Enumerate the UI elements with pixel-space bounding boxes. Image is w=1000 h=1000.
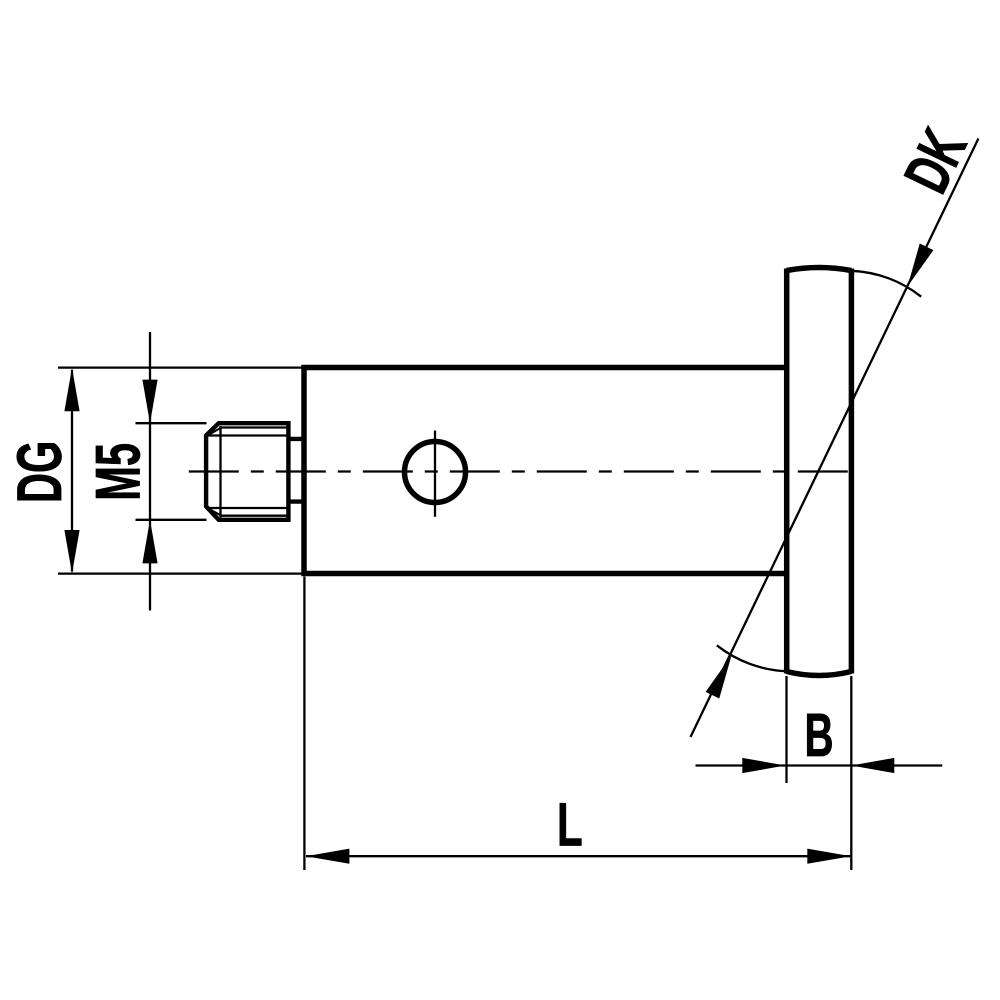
neck line top [288, 437, 305, 441]
centerline (horizontal dash-dot axis) [189, 470, 849, 472]
L arrow right [807, 849, 851, 864]
DG arrow top [64, 368, 79, 412]
M5 arrow top [142, 380, 157, 424]
DG dimension line [71, 370, 73, 572]
svg-text:DG: DG [6, 441, 76, 503]
thread minor diameter line top [208, 434, 288, 436]
svg-text:B: B [804, 700, 833, 768]
set screw stud M5 outline [206, 423, 288, 520]
svg-text:L: L [557, 792, 583, 860]
B dimension line [696, 764, 943, 766]
M5 arrow bottom [142, 520, 157, 564]
DG extension line bottom [58, 572, 302, 574]
neck line bottom [288, 499, 305, 503]
stud chamfer diagonal bottom [208, 508, 221, 515]
thread chamfer line top [221, 426, 288, 428]
L dimension line [306, 855, 851, 857]
stud chamfer diagonal top [208, 428, 221, 436]
B extension line right [850, 676, 852, 870]
DK arrow top [908, 244, 934, 287]
svg-text:M5: M5 [84, 443, 154, 501]
L extension line left [303, 577, 305, 871]
M5 dimension line [149, 332, 151, 611]
cross hole circle [405, 442, 466, 503]
thread chamfer line bottom [221, 515, 288, 517]
disc top edge arc [787, 268, 852, 271]
disc face arc bottom left [717, 645, 787, 671]
body cylinder outline [304, 368, 787, 574]
thread minor diameter line bottom [208, 507, 288, 509]
B arrow left [742, 758, 785, 773]
stud chamfer vertical line [219, 426, 221, 518]
disc right edge [849, 269, 855, 674]
M5 extension line bottom [136, 519, 207, 521]
L arrow left [306, 849, 350, 864]
DK dimension line [691, 139, 979, 738]
disc face arc top right [851, 271, 921, 297]
B extension line left [785, 676, 787, 783]
M5 extension line top [136, 422, 207, 424]
DG extension line top [58, 366, 302, 368]
disc left edge [784, 269, 790, 674]
DG arrow bottom [64, 530, 79, 574]
DK arrow bottom [706, 656, 732, 699]
disc bottom edge arc [787, 672, 852, 676]
B arrow right [851, 758, 894, 773]
hole vertical centerline [434, 431, 436, 517]
